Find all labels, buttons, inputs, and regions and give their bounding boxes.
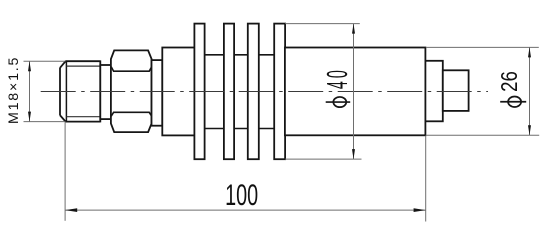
threaded stud M18x1.5 outline	[60, 60, 100, 122]
phi26 dimension	[426, 47, 539, 135]
100 dimension	[65, 122, 426, 221]
neck	[152, 60, 163, 126]
svg-text:26: 26	[497, 71, 522, 92]
fin 4	[274, 24, 285, 160]
M18 dim arrow bottom	[28, 112, 31, 122]
100 dim arrow left	[65, 208, 77, 212]
phi40 dim arrow bottom	[352, 149, 355, 159]
phi40 dim arrow top	[352, 24, 355, 34]
M18x1.5 dimension	[24, 61, 66, 121]
svg-text:4: 4	[322, 81, 354, 89]
phi26 dim arrow bottom	[528, 125, 531, 135]
fin 3	[248, 24, 259, 160]
svg-text:0: 0	[322, 70, 354, 78]
centerline	[41, 91, 488, 93]
step 1	[425, 61, 442, 122]
shoulder cylinder	[162, 48, 194, 136]
phi symbol of phi40	[333, 97, 346, 107]
svg-text:100: 100	[225, 179, 258, 212]
hex nut outline	[111, 50, 152, 132]
phi40 dimension	[285, 24, 361, 160]
phi26 dim arrow top	[528, 47, 531, 57]
washer collar	[100, 65, 111, 119]
fin core lines	[205, 55, 275, 129]
hex face lines	[111, 67, 151, 116]
100 dim arrow right	[414, 208, 426, 212]
M18 dim arrow top	[28, 61, 31, 71]
step 2	[443, 70, 469, 111]
fin 2	[224, 24, 234, 160]
svg-text:M18×1.5: M18×1.5	[6, 56, 22, 124]
thread minor diameter lines	[66, 66, 100, 117]
main body	[285, 48, 426, 136]
phi symbol of phi26	[508, 97, 521, 108]
fin 1	[194, 24, 204, 160]
